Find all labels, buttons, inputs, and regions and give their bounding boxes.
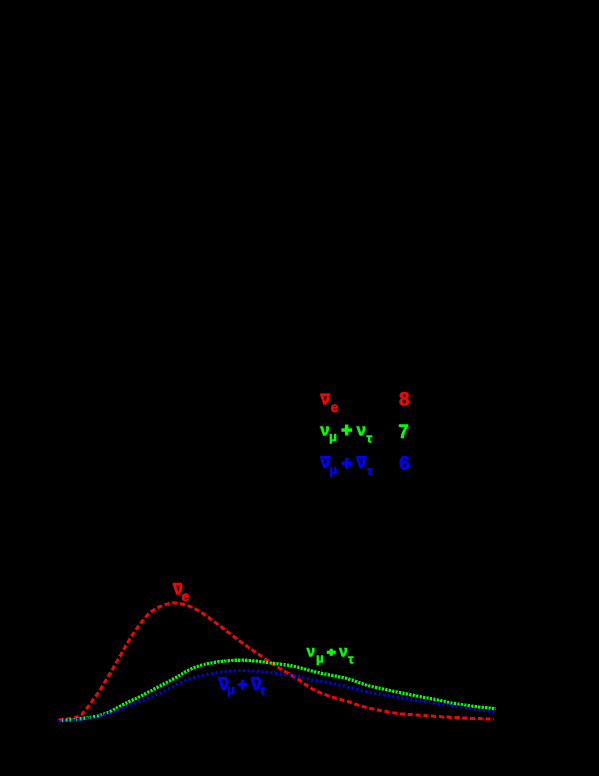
svg-text:6: 6 [399, 454, 410, 475]
svg-text:τ: τ [367, 463, 373, 478]
curve label anti-nu_e (red) [173, 579, 190, 605]
svg-text:ν: ν [321, 390, 330, 409]
svg-text:τ: τ [348, 652, 354, 666]
svg-text:ν: ν [339, 644, 348, 661]
curve label anti-nu_mu + anti-nu_tau (blue) [219, 674, 266, 697]
legend row 3: anti-nu_mu + anti-nu_tau label [321, 453, 373, 478]
svg-text:τ: τ [366, 431, 372, 446]
curve label nu_mu + nu_tau (green) [307, 644, 355, 667]
svg-text:8: 8 [399, 390, 410, 411]
legend row 1: anti-nu_e label [321, 390, 339, 416]
curve anti-nu_e (red dashed) [59, 603, 495, 720]
svg-text:μ: μ [227, 682, 235, 697]
svg-text:μ: μ [329, 429, 337, 444]
svg-text:e: e [182, 588, 190, 604]
svg-text:7: 7 [398, 422, 409, 443]
svg-text:μ: μ [316, 651, 324, 665]
svg-text:μ: μ [329, 462, 337, 477]
svg-text:τ: τ [260, 683, 266, 697]
svg-text:ν: ν [307, 644, 316, 661]
svg-text:ν: ν [357, 420, 366, 439]
legend row 2: nu_mu + nu_tau label [320, 420, 372, 445]
svg-text:e: e [331, 399, 339, 415]
curve anti-nu_mu + anti-nu_tau (blue dotted) [59, 671, 497, 722]
curve nu_mu + nu_tau (green dotted) [59, 660, 497, 721]
